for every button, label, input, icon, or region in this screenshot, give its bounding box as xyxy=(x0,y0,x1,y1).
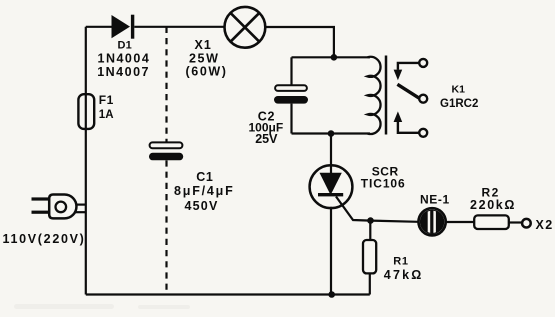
wire relay box top rail xyxy=(292,56,371,58)
svg-text:25V: 25V xyxy=(255,132,278,146)
wire bottom contact xyxy=(398,122,419,133)
svg-text:D1: D1 xyxy=(118,40,132,52)
SCR TIC106 xyxy=(310,165,353,208)
svg-text:450V: 450V xyxy=(185,199,219,213)
scan smudge (decorative) xyxy=(14,304,190,309)
resistor R1 xyxy=(363,240,376,273)
wire R1 bottom lead xyxy=(369,273,371,294)
wire C2 top lead xyxy=(290,57,292,85)
svg-text:47kΩ: 47kΩ xyxy=(384,268,424,282)
terminal X2 xyxy=(522,219,531,228)
wire top contact xyxy=(398,63,419,70)
svg-text:X1: X1 xyxy=(195,38,212,52)
relay K1 core xyxy=(385,56,388,135)
wire NE-1 to R2 xyxy=(446,221,474,223)
arrow top contact (down) xyxy=(394,70,403,81)
svg-text:1A: 1A xyxy=(99,109,114,121)
wire SCR gate to NE-1 xyxy=(336,197,418,222)
wire dashed C1 branch lower xyxy=(165,160,167,294)
wire top rail from left corner to diode xyxy=(86,26,112,28)
node: junction relay box bottom / SCR anode xyxy=(328,130,335,137)
capacitor C2 xyxy=(274,85,308,103)
wire left vertical (mains line) xyxy=(85,27,87,295)
svg-text:110V(220V): 110V(220V) xyxy=(3,232,86,246)
relay K1 coil xyxy=(368,57,381,134)
svg-text:1N4007: 1N4007 xyxy=(97,65,150,79)
plug (mains) xyxy=(32,195,77,219)
svg-text:25W: 25W xyxy=(189,51,220,65)
node: junction bottom rail / SCR cathode xyxy=(328,291,335,298)
contact terminal bottom xyxy=(419,129,427,137)
svg-text:K1: K1 xyxy=(452,83,466,95)
wire SCR cathode xyxy=(330,207,332,295)
svg-text:R1: R1 xyxy=(393,256,409,268)
svg-text:C1: C1 xyxy=(196,170,213,184)
wire bottom rail xyxy=(86,293,370,295)
resistor R2 xyxy=(474,215,509,229)
wire lamp to relay box top xyxy=(266,27,334,57)
neon lamp NE-1 xyxy=(419,204,446,240)
wire relay box bottom rail xyxy=(292,132,371,134)
diode D1 xyxy=(112,15,135,39)
wire plug lead upper xyxy=(72,204,86,206)
contact terminal middle xyxy=(419,95,427,103)
contact terminal top xyxy=(419,59,427,67)
svg-text:F1: F1 xyxy=(99,93,114,107)
wire dashed C1 branch upper xyxy=(165,27,167,143)
svg-text:220kΩ: 220kΩ xyxy=(470,198,516,212)
wire plug lead lower xyxy=(72,211,86,213)
node: junction gate / R1 xyxy=(367,217,374,224)
svg-text:G1RC2: G1RC2 xyxy=(440,98,478,110)
fuse F1 xyxy=(78,94,94,129)
node: junction top rail / relay box xyxy=(331,54,338,61)
wire SCR anode xyxy=(330,134,332,175)
wire R2 to X2 xyxy=(509,221,522,223)
wire R1 top lead xyxy=(369,221,371,240)
svg-text:X2: X2 xyxy=(536,218,554,232)
relay blade (common) xyxy=(397,84,419,98)
relay K1 contacts xyxy=(398,59,427,137)
svg-text:1N4004: 1N4004 xyxy=(98,52,151,66)
wire C2 bottom lead xyxy=(290,104,292,134)
svg-text:NE-1: NE-1 xyxy=(420,192,450,206)
svg-text:TIC106: TIC106 xyxy=(361,176,406,190)
arrow bottom contact (up) xyxy=(394,111,403,122)
svg-text:(60W): (60W) xyxy=(186,65,228,79)
wire diode to lamp xyxy=(134,26,224,28)
svg-text:8μF/4μF: 8μF/4μF xyxy=(174,184,235,198)
capacitor C1 xyxy=(149,142,183,160)
lamp X1 xyxy=(225,7,266,48)
